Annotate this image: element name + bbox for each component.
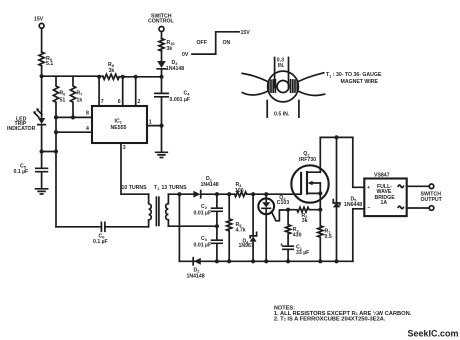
resistor R8 3k (horizontal in rail) — [103, 62, 119, 79]
wire Q1 source column — [319, 183, 321, 226]
transistor Q1 IRF730 mosfet — [291, 151, 328, 203]
svg-text:1N967: 1N967 — [239, 243, 254, 249]
zener diode D5 1N6448 — [333, 137, 362, 261]
svg-text:MAGNET WIRE: MAGNET WIRE — [341, 79, 379, 85]
node source stub junction — [318, 191, 322, 195]
wire C6 row primary bottom — [56, 226, 149, 228]
node switch control terminal — [148, 13, 174, 31]
node pin6 rail junction — [121, 75, 125, 79]
capacitor C3 0.01uF — [194, 226, 223, 261]
svg-text:4: 4 — [86, 126, 89, 132]
ground pin1 — [156, 126, 168, 158]
svg-text:OUTPUT: OUTPUT — [421, 197, 443, 203]
resistor R1 0.5 — [318, 226, 332, 261]
node junction 15V rail — [40, 74, 44, 78]
node top rail Q2 junction — [264, 192, 268, 196]
node pin1 junction — [159, 124, 163, 128]
zener diode D4 1N967 — [239, 194, 257, 261]
svg-text:IRF730: IRF730 — [299, 157, 316, 163]
svg-text:5.1: 5.1 — [46, 61, 53, 67]
svg-text:4.7k: 4.7k — [236, 227, 246, 233]
resistor R4 100 — [235, 182, 247, 197]
svg-text:10 TURNS: 10 TURNS — [122, 185, 148, 191]
svg-text:C3: C3 — [201, 236, 208, 242]
wire pin 7 — [99, 77, 104, 106]
transformer T1 core — [156, 197, 159, 225]
capacitor C2 0.01uF — [194, 194, 223, 226]
svg-text:R7: R7 — [77, 91, 83, 97]
node LED bottom junction — [40, 149, 44, 153]
svg-text:0.1 µF: 0.1 µF — [93, 239, 108, 245]
wire pin8 line — [56, 116, 92, 118]
full-wave bridge VS847 — [364, 172, 406, 216]
node switch rail junction — [159, 75, 163, 79]
svg-text:2. T1 IS A FERROXCUBE 204XT250: 2. T1 IS A FERROXCUBE 204XT250-3E2A. — [274, 316, 386, 322]
svg-text:+: + — [280, 242, 283, 248]
node pin4 junction — [54, 130, 58, 134]
svg-text:0.5 IN.: 0.5 IN. — [274, 112, 290, 118]
capacitor C6 0.1uF — [93, 222, 108, 245]
svg-text:C2: C2 — [201, 204, 208, 210]
svg-text:1N4148: 1N4148 — [187, 274, 205, 280]
node R6 pin8 junction — [54, 115, 58, 119]
wire switch output top — [407, 185, 430, 187]
node top rail R5 junction — [227, 192, 231, 196]
svg-text:51: 51 — [60, 98, 66, 104]
node drain rail D5 junction — [334, 135, 338, 139]
node pin2 rail junction — [134, 75, 138, 79]
svg-text:CONTROL: CONTROL — [148, 19, 174, 25]
capacitor C5 0.1uF — [14, 152, 48, 189]
ground below C5 — [36, 189, 48, 194]
svg-text:33 µF: 33 µF — [296, 250, 309, 256]
svg-text:0.001 µF: 0.001 µF — [170, 97, 191, 103]
waveform off-on step graphic — [182, 30, 250, 58]
resistor R10 3k (switch control) — [159, 39, 175, 52]
svg-text:100: 100 — [235, 188, 244, 194]
svg-text:1N4148: 1N4148 — [201, 182, 219, 188]
node R2 source junction — [318, 208, 322, 212]
wire terminal to R10 — [161, 32, 163, 39]
svg-text:2: 2 — [138, 99, 141, 105]
svg-text:15V: 15V — [34, 17, 44, 23]
svg-text:IC1: IC1 — [115, 118, 123, 124]
svg-text:−: − — [367, 205, 370, 211]
svg-text:OFF: OFF — [197, 40, 207, 46]
wire bridge plus lead riser — [353, 137, 365, 187]
wire pin 3 to transformer primary — [121, 143, 149, 194]
node top rail D4 junction — [251, 192, 255, 196]
svg-text:0V: 0V — [182, 52, 189, 58]
thyristor Q2 C103 — [258, 194, 289, 261]
svg-text:1A: 1A — [381, 200, 388, 206]
svg-text:+: + — [367, 185, 370, 191]
wire Q1 drain up to rail — [320, 137, 353, 172]
svg-text:SeekIC.com: SeekIC.com — [408, 329, 459, 339]
LED trip indicator — [7, 76, 45, 151]
svg-text:C4: C4 — [184, 91, 191, 97]
diode D3 1N4148 — [157, 51, 184, 77]
node 15V supply terminal — [34, 17, 44, 29]
wire x56 column down — [55, 117, 57, 226]
resistor R3 430 — [286, 210, 302, 247]
svg-text:1N6448: 1N6448 — [344, 202, 362, 208]
capacitor C4 0.001uF — [155, 77, 190, 126]
diode D2 1N4148 — [187, 258, 205, 280]
node secondary top junction — [177, 192, 181, 196]
toroid dimension 0.3 in — [275, 57, 289, 87]
transformer T1 primary winding — [149, 194, 152, 227]
svg-text:3: 3 — [123, 145, 126, 151]
label T1 magnet wire note — [326, 72, 382, 85]
node gate network junction — [286, 208, 290, 212]
capacitor C1 33uF electrolytic — [280, 242, 309, 261]
wire pin4 line — [56, 131, 92, 133]
svg-text:430: 430 — [293, 233, 302, 239]
node R7 pin8 junction — [71, 115, 75, 119]
svg-text:8: 8 — [86, 111, 89, 117]
wire bridge minus lead dropper — [353, 209, 365, 261]
svg-text:1N4148: 1N4148 — [166, 66, 184, 72]
wire LED junction to x56 column — [42, 151, 56, 153]
wire top rail y76.8 from junction to switch column — [42, 75, 162, 78]
svg-text:3k: 3k — [167, 46, 173, 52]
svg-text:15V: 15V — [241, 30, 251, 36]
wire pin 1 — [147, 120, 162, 126]
svg-text:R6: R6 — [60, 91, 67, 97]
node x56 LED row junction — [54, 149, 58, 153]
toroid dimension 0.5 in — [267, 101, 299, 118]
resistor R2 3k — [288, 207, 320, 224]
svg-text:1: 1 — [149, 120, 152, 126]
svg-text:0.1 µF: 0.1 µF — [14, 169, 29, 175]
resistor R7 1k — [70, 76, 82, 117]
notes text — [274, 305, 412, 322]
op-amp IC1 NE555 box — [92, 106, 147, 143]
svg-text:C103: C103 — [277, 200, 290, 206]
svg-text:3k: 3k — [109, 68, 115, 74]
svg-text:NE555: NE555 — [111, 125, 127, 131]
wire 15V terminal to R9 — [41, 28, 43, 52]
wire bottom rail — [179, 260, 352, 262]
svg-text:IN.: IN. — [278, 63, 285, 69]
resistor R6 51 — [53, 76, 66, 117]
wire switch output bottom — [407, 207, 430, 209]
wire pin 6 — [118, 77, 123, 106]
svg-text:3k: 3k — [302, 218, 308, 224]
node top rail C2 junction — [215, 192, 219, 196]
wire x179 vertical top to bottom rail — [178, 194, 180, 261]
svg-text:7: 7 — [101, 99, 104, 105]
svg-text:INDICATOR: INDICATOR — [7, 126, 36, 132]
node pin7 rail junction — [97, 75, 101, 79]
svg-text:6: 6 — [118, 99, 121, 105]
wire secondary top rail — [168, 193, 301, 195]
svg-text:0.01 µF: 0.01 µF — [194, 243, 212, 249]
label switch output — [421, 192, 443, 203]
svg-text:0.5: 0.5 — [325, 234, 332, 240]
svg-text:T1 : 30- TO 36- GAUGE: T1 : 30- TO 36- GAUGE — [326, 72, 382, 78]
svg-text:1k: 1k — [77, 98, 83, 104]
svg-text:0.01 µF: 0.01 µF — [194, 211, 212, 217]
resistor R5 4.7k — [227, 194, 246, 261]
node switch output top terminal — [429, 184, 434, 189]
node C2 C3 mid junction — [215, 224, 219, 228]
resistor R9 5.1 — [39, 52, 53, 67]
svg-text:T1: T1 — [154, 185, 160, 191]
wire mid rail secondary bottom to C2C3 — [168, 225, 217, 227]
svg-text:ON: ON — [223, 40, 231, 46]
transformer T1 secondary winding — [166, 194, 169, 226]
toroid core figure — [242, 71, 324, 102]
wire pin 2 — [136, 77, 141, 106]
svg-text:13 TURNS: 13 TURNS — [162, 185, 188, 191]
diode D1 1N4148 — [193, 176, 218, 198]
svg-text:VS847: VS847 — [374, 172, 390, 178]
node switch output bottom terminal — [429, 206, 434, 211]
wire R9 to junction — [41, 66, 43, 77]
node bottom rail junctions — [215, 259, 339, 263]
